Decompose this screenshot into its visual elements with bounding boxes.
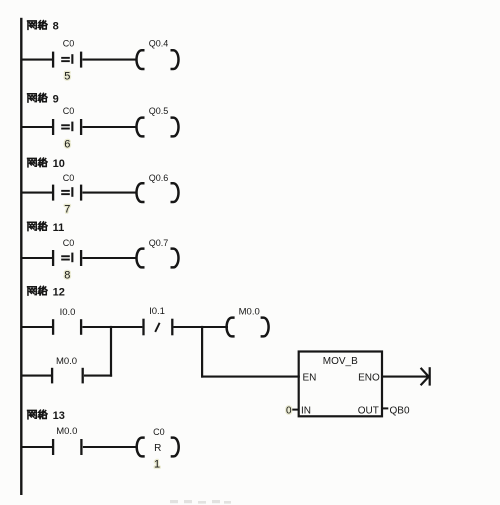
svg-text:IN: IN — [301, 405, 311, 416]
svg-text:6: 6 — [64, 139, 70, 151]
svg-text:10: 10 — [53, 158, 65, 170]
svg-text:I0.1: I0.1 — [149, 306, 165, 317]
svg-text:8: 8 — [53, 21, 59, 33]
svg-text:I0.0: I0.0 — [60, 307, 76, 318]
svg-text:7: 7 — [64, 203, 70, 215]
svg-text:C0: C0 — [63, 238, 75, 248]
svg-text:C0: C0 — [63, 39, 75, 49]
svg-text:11: 11 — [53, 222, 65, 234]
svg-text:Q0.7: Q0.7 — [149, 238, 169, 248]
svg-text:QB0: QB0 — [390, 405, 410, 416]
svg-text:13: 13 — [53, 410, 65, 422]
svg-text:ENO: ENO — [358, 372, 380, 383]
svg-text:M0.0: M0.0 — [239, 307, 260, 318]
svg-text:1: 1 — [154, 458, 160, 470]
svg-text:Q0.5: Q0.5 — [149, 106, 169, 116]
svg-text:M0.0: M0.0 — [56, 426, 77, 437]
svg-text:12: 12 — [53, 286, 65, 298]
svg-text:9: 9 — [53, 93, 59, 105]
svg-text:C0: C0 — [63, 106, 75, 116]
svg-text:M0.0: M0.0 — [56, 356, 77, 367]
svg-text:MOV_B: MOV_B — [323, 356, 358, 367]
svg-text:C0: C0 — [63, 173, 75, 183]
svg-text:EN: EN — [303, 372, 317, 383]
svg-text:OUT: OUT — [358, 405, 379, 416]
svg-text:Q0.4: Q0.4 — [149, 39, 169, 49]
svg-text:C0: C0 — [153, 427, 165, 437]
svg-text:Q0.6: Q0.6 — [149, 173, 169, 183]
svg-text:0: 0 — [286, 405, 292, 416]
svg-text:5: 5 — [64, 71, 70, 83]
svg-text:8: 8 — [64, 270, 70, 282]
svg-text:R: R — [154, 443, 161, 454]
